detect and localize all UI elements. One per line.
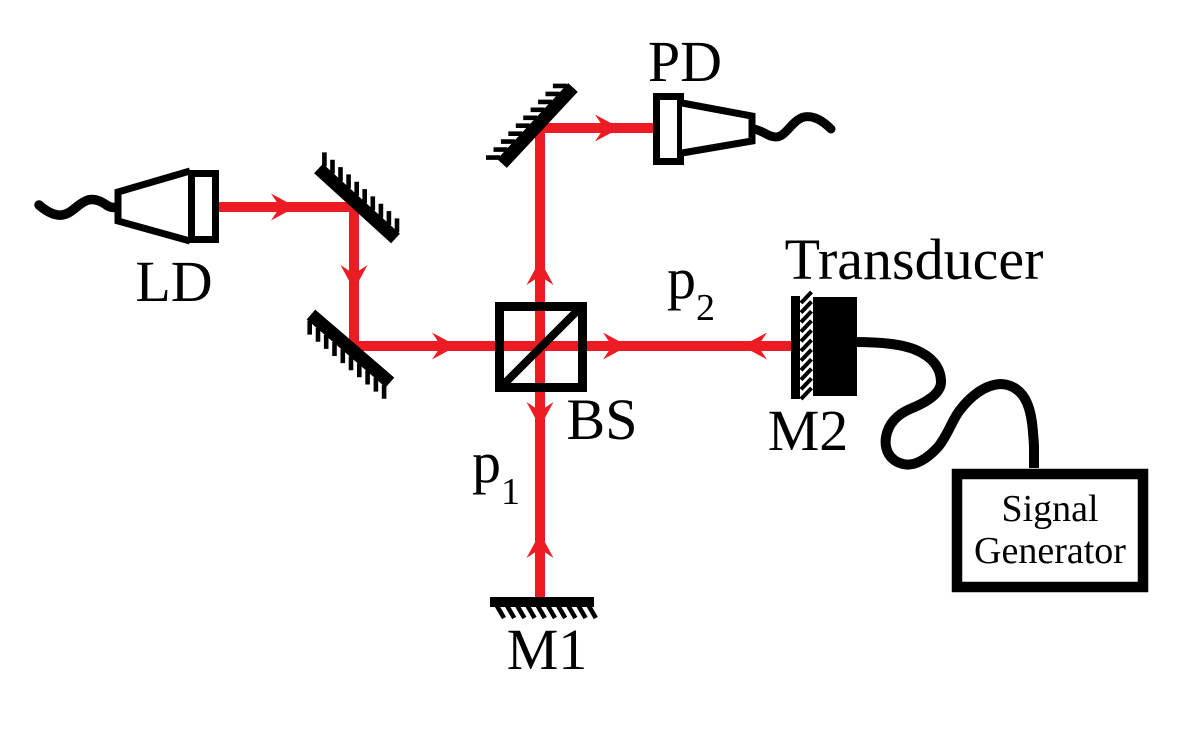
svg-text:Signal: Signal	[1001, 488, 1098, 530]
svg-text:Generator: Generator	[974, 530, 1126, 572]
svg-text:M2: M2	[768, 398, 849, 463]
svg-text:LD: LD	[135, 249, 212, 314]
svg-text:PD: PD	[648, 29, 722, 94]
svg-text:BS: BS	[567, 387, 638, 452]
svg-text:M1: M1	[507, 617, 588, 682]
svg-text:Transducer: Transducer	[785, 227, 1044, 292]
